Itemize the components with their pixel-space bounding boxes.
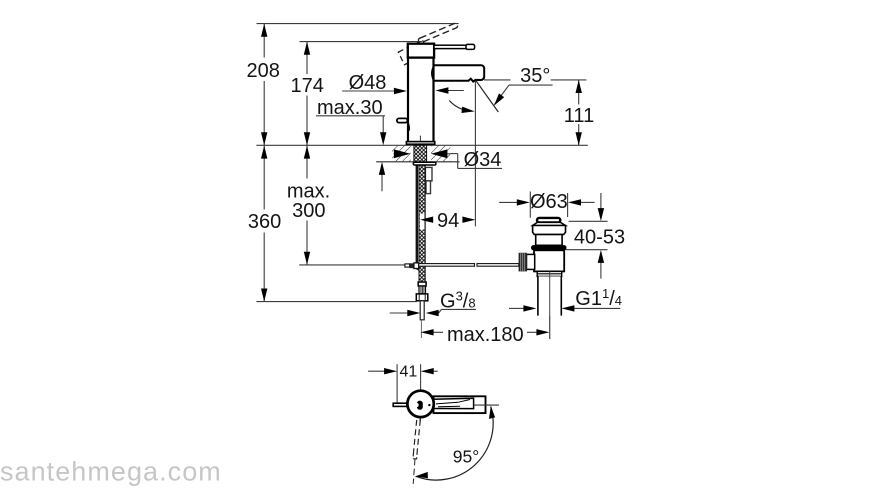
svg-text:41: 41 xyxy=(400,363,418,380)
svg-text:300: 300 xyxy=(292,200,325,222)
svg-text:95°: 95° xyxy=(453,446,479,466)
svg-text:Ø48: Ø48 xyxy=(349,72,387,94)
svg-text:111: 111 xyxy=(564,105,594,127)
svg-text:santehmega.com: santehmega.com xyxy=(0,457,222,487)
svg-text:max.180: max.180 xyxy=(447,324,524,346)
svg-text:Ø34: Ø34 xyxy=(464,149,502,171)
svg-text:40-53: 40-53 xyxy=(574,227,625,249)
svg-text:35°: 35° xyxy=(520,65,550,87)
svg-text:360: 360 xyxy=(248,211,281,233)
svg-text:94: 94 xyxy=(437,210,459,232)
svg-text:174: 174 xyxy=(291,75,324,97)
svg-text:Ø63: Ø63 xyxy=(530,191,568,213)
svg-text:208: 208 xyxy=(247,60,280,82)
svg-text:max.30: max.30 xyxy=(317,97,383,119)
